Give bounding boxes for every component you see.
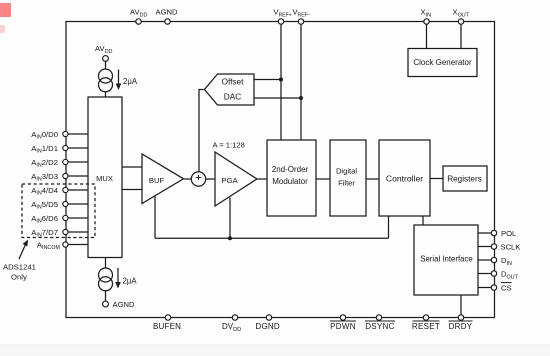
svg-text:POL: POL [501, 229, 516, 238]
wire current source to AGND terminal [105, 291, 107, 301]
svg-text:Digital: Digital [336, 167, 357, 176]
pin VREF- [298, 19, 303, 24]
artifact pink square [0, 3, 11, 17]
pin AIN1 [63, 145, 68, 150]
wire modulator to digital filter [316, 178, 330, 180]
svg-text:DGND: DGND [256, 322, 280, 331]
wire AIN1 [66, 147, 88, 149]
controller U6 [379, 140, 430, 216]
svg-text:ADS1241: ADS1241 [3, 263, 36, 272]
op-amp BUF [142, 154, 184, 204]
wire feedback BUF vertical [154, 196, 156, 239]
junction feedback PGA [228, 236, 232, 240]
pin XOUT [458, 19, 463, 24]
wire AIN6 [66, 217, 88, 219]
wire CS stub [478, 287, 492, 289]
wire AIN4 [66, 189, 88, 191]
pin POL [491, 230, 496, 235]
svg-text:Filter: Filter [338, 179, 355, 188]
svg-text:CS: CS [501, 284, 512, 293]
svg-text:Registers: Registers [447, 175, 482, 184]
pin DIN [491, 257, 496, 262]
wire VREF- vertical [300, 22, 302, 140]
svg-text:PDWN: PDWN [330, 322, 356, 331]
arrow 2uA bottom [117, 268, 119, 283]
artifact pink mark [0, 25, 5, 33]
pin XIN [424, 19, 429, 24]
wire AIN7 [66, 231, 88, 233]
current source I2 [99, 268, 113, 282]
wire AIN0 [66, 133, 88, 135]
pin AINCOM [63, 242, 68, 247]
arrow 2uA top [118, 70, 120, 85]
bottom page band [0, 346, 550, 356]
arrow to dashed box [19, 245, 26, 260]
wire current source to MUX [105, 92, 107, 97]
digital filter U4 [330, 140, 366, 216]
wire offset DAC to VREF+ [254, 79, 282, 81]
svg-text:Offset: Offset [222, 77, 245, 87]
wire serial to DRDY [460, 295, 462, 318]
svg-text:Clock Generator: Clock Generator [413, 58, 472, 67]
pin AVDD top [136, 19, 141, 24]
pin AIN6 [63, 215, 68, 220]
junction VREF+ DAC [279, 78, 283, 82]
pin PDWN [340, 315, 345, 320]
pin AGND top [165, 19, 170, 24]
pin DSYNC [376, 315, 381, 320]
current source I1 [99, 69, 113, 83]
pin DVDD [232, 315, 237, 320]
serial interface U8 [414, 225, 478, 295]
pin DRDY [458, 315, 463, 320]
pin DGND [266, 315, 271, 320]
wire DIN stub [478, 259, 492, 261]
svg-text:AGND: AGND [156, 8, 178, 17]
wire controller to serial interface [422, 216, 424, 225]
svg-text:DAC: DAC [224, 92, 242, 102]
wire feedback PGA vertical [229, 198, 231, 239]
svg-text:Controller: Controller [386, 174, 423, 184]
pin DOUT [491, 271, 496, 276]
pin AIN2 [63, 159, 68, 164]
pin BUFEN [165, 315, 170, 320]
svg-text:SCLK: SCLK [501, 243, 521, 252]
dashed box ADS1241 only [22, 184, 95, 238]
registers U7 [443, 166, 487, 191]
summing junction [191, 172, 205, 186]
svg-text:2nd-Order: 2nd-Order [272, 165, 309, 174]
svg-text:DSYNC: DSYNC [365, 322, 395, 331]
modulator U3 [267, 140, 316, 216]
pin RESET [423, 315, 428, 320]
pin AIN4 [63, 187, 68, 192]
chip outline box [66, 22, 495, 318]
svg-text:RESET: RESET [412, 322, 440, 331]
wire AVDD to current source [105, 62, 107, 70]
svg-text:BUFEN: BUFEN [153, 322, 181, 331]
wire AIN5 [66, 203, 88, 205]
svg-text:BUF: BUF [149, 176, 165, 185]
wire PGA to modulator [257, 178, 267, 180]
plus sign in summing junction [196, 175, 201, 180]
pin CS [491, 285, 496, 290]
svg-text:Modulator: Modulator [272, 177, 308, 186]
pin AIN5 [63, 201, 68, 206]
wire feedback controller vertical [388, 216, 390, 238]
wire DOUT stub [478, 273, 492, 275]
offset DAC U2 [205, 74, 255, 105]
pin SCLK [491, 244, 496, 249]
svg-text:MUX: MUX [96, 174, 113, 183]
wire AIN2 [66, 161, 88, 163]
wire offset DAC to summing node [199, 90, 205, 173]
wire AINCOM [66, 244, 88, 246]
svg-text:Only: Only [11, 273, 27, 282]
pin AIN3 [63, 173, 68, 178]
op-amp PGA [215, 152, 257, 206]
pin AIN7 [63, 229, 68, 234]
wire XOUT down to clock generator [460, 22, 462, 49]
wire filter to controller [366, 178, 379, 180]
svg-text:A = 1:128: A = 1:128 [213, 141, 245, 150]
svg-text:2μA: 2μA [123, 277, 138, 286]
wire MUX to BUF plus [122, 166, 142, 168]
pin AIN0 [63, 131, 68, 136]
wire SCLK stub [478, 246, 492, 248]
clock generator U5 [408, 49, 477, 77]
wire summing node to PGA [206, 178, 215, 180]
terminal AGND internal [103, 301, 109, 307]
wire controller to registers [430, 178, 443, 180]
svg-text:AGND: AGND [113, 300, 135, 309]
wire BUF to summing node [184, 178, 192, 180]
wire POL stub [478, 232, 492, 234]
pin VREF+ [278, 19, 283, 24]
wire MUX to bottom current source [105, 258, 107, 269]
svg-text:DRDY: DRDY [449, 322, 473, 331]
MUX U0 [88, 97, 122, 258]
svg-text:2μA: 2μA [123, 77, 138, 86]
wire MUX to BUF minus [122, 189, 142, 191]
wire VREF+ vertical [280, 22, 282, 140]
svg-text:Serial Interface: Serial Interface [420, 255, 472, 264]
wire XIN down to clock generator [426, 22, 428, 49]
terminal AVDD internal [103, 56, 109, 62]
svg-text:PGA: PGA [221, 176, 238, 185]
wire AIN3 [66, 175, 88, 177]
junction VREF- DAC [299, 96, 303, 100]
wire offset DAC to VREF- [254, 97, 302, 99]
wire feedback horizontal [155, 237, 389, 239]
